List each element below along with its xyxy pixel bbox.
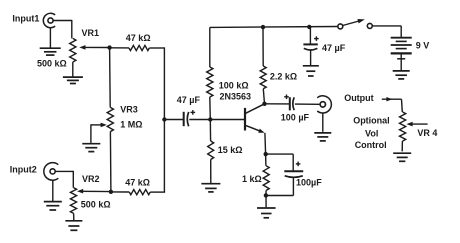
svg-text:500 kΩ: 500 kΩ xyxy=(37,59,67,69)
svg-text:47 kΩ: 47 kΩ xyxy=(126,33,151,43)
svg-text:1 kΩ: 1 kΩ xyxy=(242,174,262,184)
svg-text:Input1: Input1 xyxy=(12,13,39,23)
svg-text:VR 4: VR 4 xyxy=(417,128,437,138)
svg-text:100 µF: 100 µF xyxy=(281,113,310,123)
svg-text:2N3563: 2N3563 xyxy=(220,91,252,101)
svg-text:1 MΩ: 1 MΩ xyxy=(120,120,142,130)
svg-text:VR2: VR2 xyxy=(82,174,100,184)
svg-text:VR1: VR1 xyxy=(82,28,100,38)
svg-text:Optional: Optional xyxy=(353,115,390,125)
svg-text:47 kΩ: 47 kΩ xyxy=(125,178,150,188)
svg-text:100µF: 100µF xyxy=(296,177,322,187)
svg-text:Control: Control xyxy=(355,140,387,150)
svg-text:15 kΩ: 15 kΩ xyxy=(218,145,243,155)
svg-text:2.2 kΩ: 2.2 kΩ xyxy=(270,71,297,81)
svg-text:Output: Output xyxy=(344,93,374,103)
svg-text:9 V: 9 V xyxy=(416,41,430,51)
svg-text:47 µF: 47 µF xyxy=(177,95,201,105)
svg-text:500 kΩ: 500 kΩ xyxy=(81,200,111,210)
svg-text:100 kΩ: 100 kΩ xyxy=(219,80,249,90)
svg-text:47 µF: 47 µF xyxy=(322,43,346,53)
svg-text:Vol: Vol xyxy=(365,129,378,139)
svg-text:Input2: Input2 xyxy=(10,165,37,175)
svg-text:VR3: VR3 xyxy=(120,104,138,114)
